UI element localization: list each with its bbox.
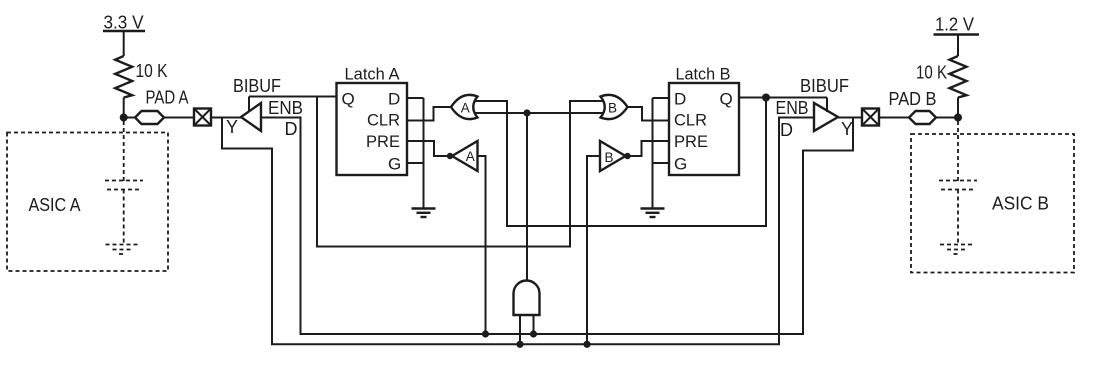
svg-text:B: B bbox=[608, 101, 617, 116]
wire net Q_B : Latch B Q to BIBUF B ENB bbox=[739, 97, 827, 99]
wire Latch A ground vertical bbox=[423, 98, 425, 209]
wire inverter A output to Latch A PRE bbox=[407, 141, 451, 156]
wire Latch B D pin to ground rail bbox=[653, 97, 670, 99]
wire BIBUF A D input to bottom bus 1 bbox=[261, 118, 853, 335]
wire net Q_A tap down to cross-couple bus bbox=[317, 97, 604, 247]
junction inverter A output bbox=[447, 153, 453, 159]
pad symbol PAD B bbox=[909, 111, 936, 124]
junction inverter B input on bus 2 bbox=[583, 341, 590, 348]
latch U1 Latch A box bbox=[337, 83, 408, 175]
wire and-gate left input leg to bus 2 bbox=[519, 315, 521, 344]
ground symbol (Latch B) bbox=[641, 209, 665, 218]
wire node to pad symbol A bbox=[124, 117, 136, 119]
svg-text:10 K: 10 K bbox=[136, 61, 168, 81]
and-gate U5 (pointing up) bbox=[514, 281, 540, 316]
wire pad A to ESD cell bbox=[164, 117, 194, 119]
parasitic net capacitor to ground (ASIC B) bbox=[957, 190, 959, 245]
supply rail 1.2 V bar bbox=[934, 33, 980, 35]
wire ESD cell A to BIBUF A output Y bbox=[211, 117, 241, 119]
parasitic capacitor plates (ASIC A) bbox=[105, 180, 143, 182]
svg-text:D: D bbox=[285, 119, 298, 139]
wire BIBUF A ENB stub bbox=[248, 97, 250, 113]
svg-text:A: A bbox=[466, 149, 475, 164]
latch U2 Latch B box bbox=[669, 83, 739, 175]
svg-text:Y: Y bbox=[226, 117, 238, 137]
wire Latch A G pin stub bbox=[407, 162, 424, 164]
svg-text:PRE: PRE bbox=[366, 132, 400, 151]
svg-text:G: G bbox=[388, 155, 401, 174]
svg-text:D: D bbox=[780, 120, 793, 140]
or-gate B (output right) bbox=[601, 95, 628, 119]
svg-text:A: A bbox=[461, 101, 470, 116]
resistor R2 bbox=[950, 56, 967, 98]
wire Latch A D pin to ground rail bbox=[407, 97, 424, 99]
wire or-gate A upper input to cross-couple net bbox=[474, 98, 766, 227]
or-gate A (mirrored, output left) bbox=[451, 95, 478, 119]
svg-text:Latch B: Latch B bbox=[676, 65, 731, 84]
wire net Q_A : Latch A Q to BIBUF A ENB bbox=[249, 96, 337, 98]
wire inverter A input to bottom bus 1 bbox=[478, 156, 486, 334]
svg-text:ENB: ENB bbox=[776, 98, 809, 118]
svg-text:CLR: CLR bbox=[674, 111, 707, 130]
wire BIBUF B Y output to ESD cell B bbox=[838, 117, 862, 119]
wire OR gate A output to Latch A CLR bbox=[407, 107, 451, 121]
parasitic net pad A into ASIC A (dashed) bbox=[123, 121, 125, 181]
wire BIBUF B ENB stub bbox=[826, 98, 828, 113]
ASIC A dashed box bbox=[7, 133, 168, 272]
svg-text:Y: Y bbox=[841, 119, 853, 139]
wire middle net or-gate A to or-gate B lower inputs bbox=[474, 112, 603, 114]
wire BIBUF A Y branch to bottom bus 2 bbox=[222, 118, 814, 345]
wire and-gate right input leg to bus 1 bbox=[533, 315, 535, 334]
buffer BIBUF A bbox=[241, 103, 261, 131]
wire node PAD B to resistor R2 bbox=[957, 98, 959, 118]
svg-text:Q: Q bbox=[342, 90, 355, 109]
buffer BIBUF B bbox=[814, 103, 838, 131]
svg-text:B: B bbox=[605, 150, 614, 165]
inverter B (output right) bbox=[600, 141, 626, 171]
svg-text:3.3 V: 3.3 V bbox=[104, 13, 144, 33]
wire or-gate B output to Latch B CLR bbox=[628, 107, 670, 121]
svg-text:Q: Q bbox=[720, 90, 733, 109]
parasitic net pad B into ASIC B (dashed) bbox=[957, 121, 959, 181]
junction and-gate right input on bus 1 bbox=[530, 330, 537, 337]
svg-text:D: D bbox=[388, 90, 400, 109]
node PAD B junction bbox=[954, 114, 962, 122]
svg-text:PAD A: PAD A bbox=[146, 88, 189, 108]
junction middle net to AND gate bbox=[523, 109, 530, 116]
wire 3.3V rail to resistor R1 bbox=[123, 31, 125, 56]
ESD cell B (crossed box) bbox=[862, 109, 879, 126]
svg-text:PAD B: PAD B bbox=[889, 89, 937, 109]
node PAD A junction bbox=[120, 114, 128, 122]
svg-text:ASIC A: ASIC A bbox=[29, 195, 81, 215]
junction and-gate left input on bus 2 bbox=[516, 341, 523, 348]
ASIC B dashed box bbox=[911, 134, 1074, 273]
parasitic ground symbol (ASIC A, dashed) bbox=[106, 245, 138, 255]
wire Latch B G pin stub bbox=[653, 162, 670, 164]
wire Latch B ground vertical bbox=[652, 98, 654, 209]
junction inverter A input on bus 1 bbox=[482, 330, 489, 337]
svg-text:ENB: ENB bbox=[268, 98, 303, 118]
resistor R1 bbox=[115, 56, 132, 98]
wire ESD cell B to pad B bbox=[879, 117, 909, 119]
parasitic capacitor plates (ASIC B) bbox=[939, 180, 977, 182]
svg-text:ASIC B: ASIC B bbox=[992, 194, 1049, 214]
junction inverter B output bbox=[624, 153, 630, 159]
svg-text:Latch A: Latch A bbox=[345, 65, 401, 84]
svg-text:BIBUF: BIBUF bbox=[233, 76, 281, 96]
parasitic ground symbol (ASIC B, dashed) bbox=[940, 245, 972, 255]
wire pad B to node PAD B bbox=[936, 117, 958, 119]
wire resistor R2 to 1.2V rail bbox=[957, 35, 959, 57]
svg-text:BIBUF: BIBUF bbox=[800, 76, 849, 96]
wire and-gate output to middle net bbox=[526, 113, 528, 281]
svg-text:10 K: 10 K bbox=[916, 63, 947, 83]
ground symbol (Latch A) bbox=[412, 209, 436, 218]
supply rail 3.3 V bar bbox=[103, 30, 145, 32]
inverter A (mirrored, output left) bbox=[452, 141, 478, 171]
wire R1 to node PAD A bbox=[123, 98, 125, 118]
svg-text:1.2 V: 1.2 V bbox=[935, 15, 974, 35]
svg-text:PRE: PRE bbox=[674, 132, 708, 151]
svg-text:D: D bbox=[674, 90, 686, 109]
svg-text:G: G bbox=[674, 155, 687, 174]
wire inverter B input to bottom bus 2 bbox=[587, 156, 600, 344]
junction net Q_B tap bbox=[762, 94, 770, 102]
ESD cell A (crossed box) bbox=[194, 109, 211, 126]
wire inverter B output to Latch B PRE bbox=[628, 141, 670, 156]
pad symbol PAD A bbox=[135, 111, 164, 124]
svg-text:CLR: CLR bbox=[367, 111, 400, 130]
parasitic net capacitor to ground (ASIC A) bbox=[123, 190, 125, 245]
